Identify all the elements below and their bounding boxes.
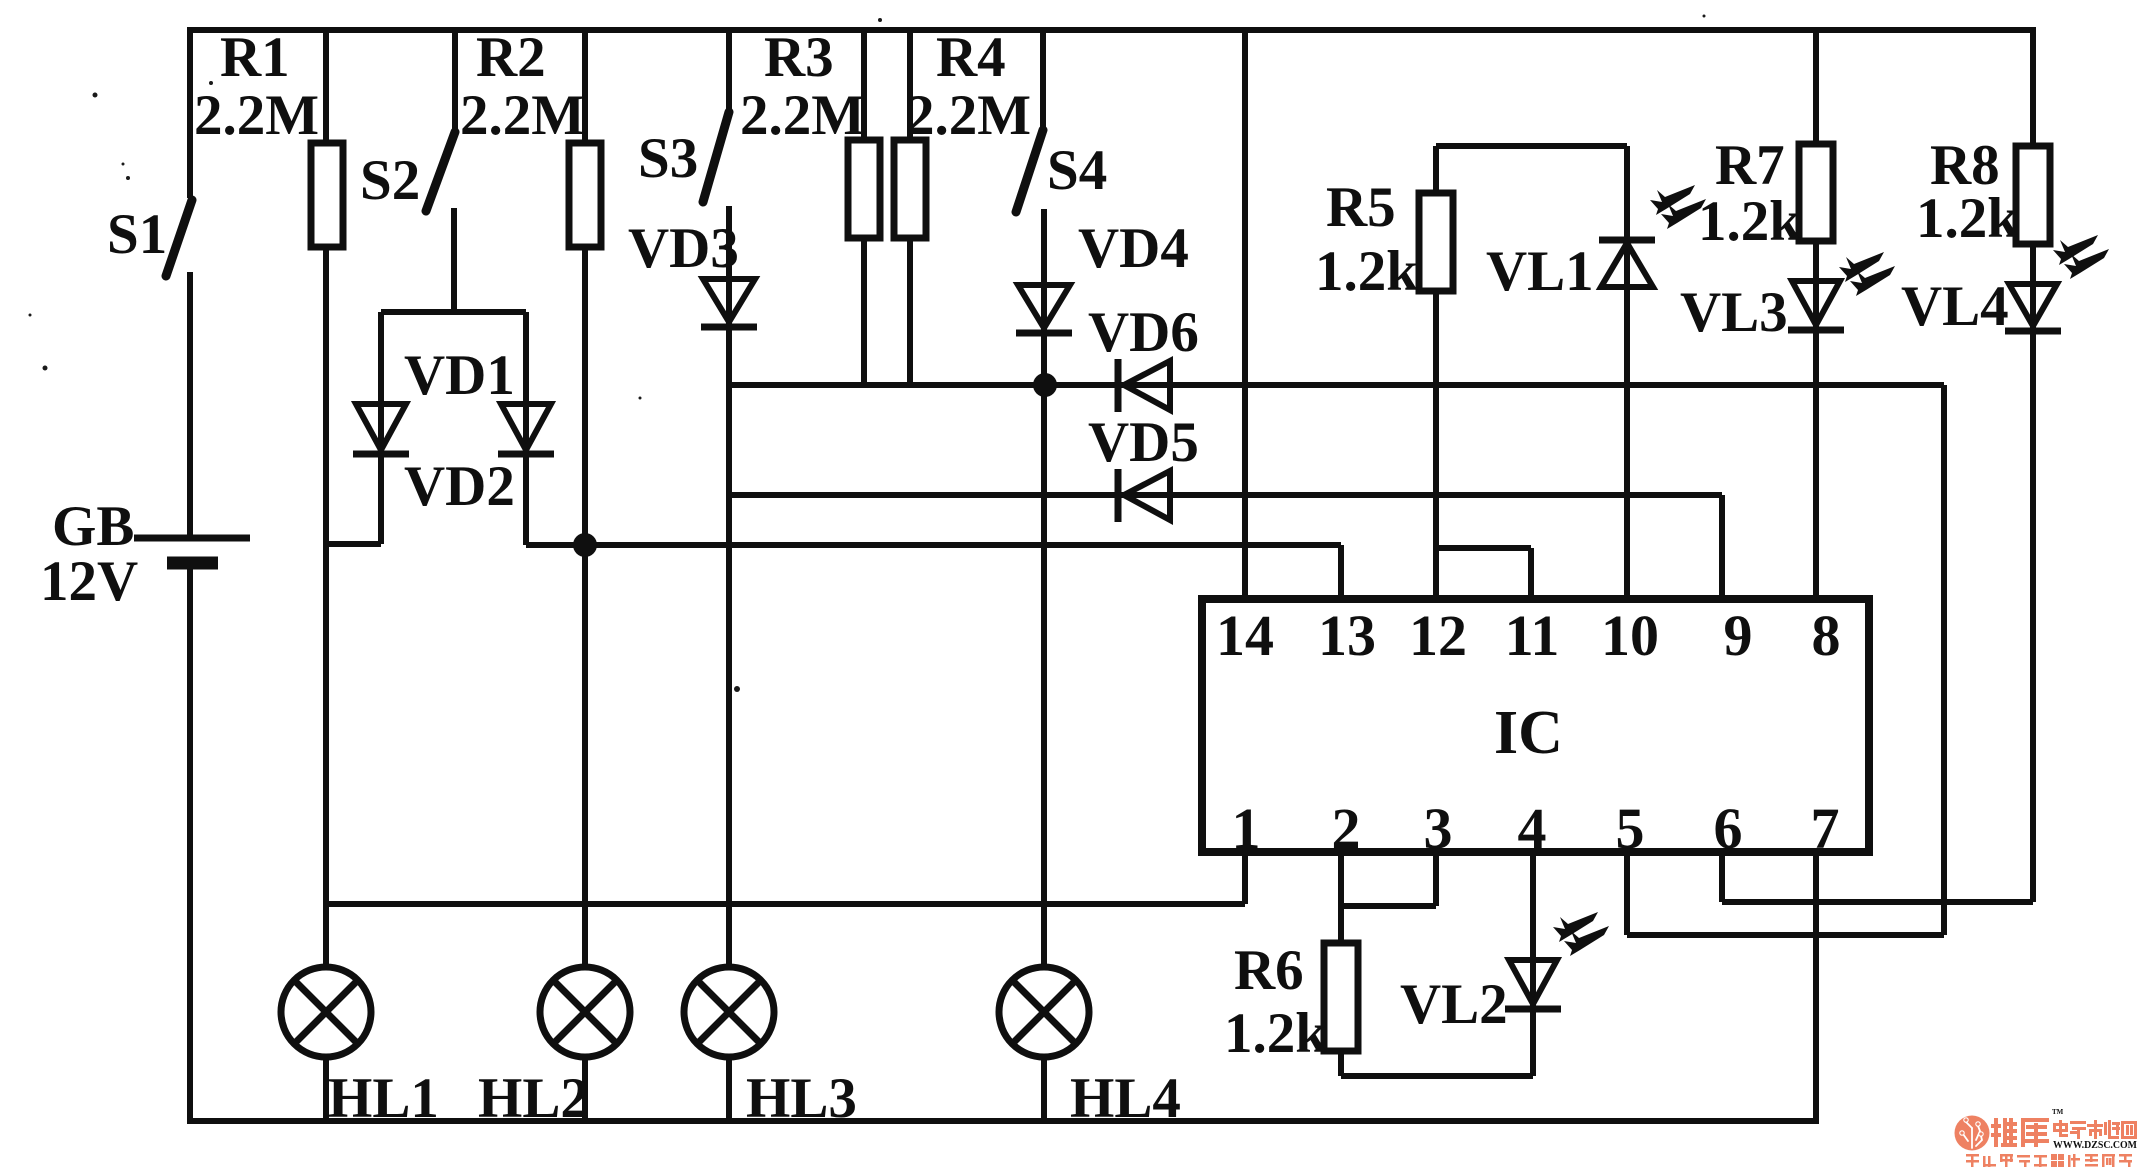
svg-text:12V: 12V <box>40 550 138 613</box>
svg-text:HL4: HL4 <box>1070 1067 1181 1130</box>
svg-text:HL2: HL2 <box>478 1067 589 1130</box>
svg-text:4: 4 <box>1518 796 1547 861</box>
svg-text:R1: R1 <box>220 26 290 89</box>
svg-text:1.2k: 1.2k <box>1916 187 2019 250</box>
svg-text:VD3: VD3 <box>628 217 739 280</box>
svg-text:14: 14 <box>1216 603 1274 668</box>
svg-text:2.2M: 2.2M <box>460 84 585 147</box>
svg-text:VL2: VL2 <box>1400 973 1508 1036</box>
svg-text:VD2: VD2 <box>404 455 515 518</box>
svg-text:S1: S1 <box>107 203 167 266</box>
svg-text:R4: R4 <box>936 26 1006 89</box>
svg-text:10: 10 <box>1601 603 1659 668</box>
svg-text:1.2k: 1.2k <box>1224 1002 1327 1065</box>
svg-text:R6: R6 <box>1234 939 1304 1002</box>
svg-text:2: 2 <box>1332 796 1361 861</box>
svg-text:VL3: VL3 <box>1680 281 1788 344</box>
svg-text:R3: R3 <box>764 26 834 89</box>
svg-text:VL1: VL1 <box>1486 240 1594 303</box>
svg-text:S4: S4 <box>1047 139 1107 202</box>
svg-text:VD5: VD5 <box>1088 411 1199 474</box>
svg-text:2.2M: 2.2M <box>740 84 865 147</box>
svg-text:VD6: VD6 <box>1088 301 1199 364</box>
svg-text:R7: R7 <box>1715 134 1785 197</box>
svg-text:11: 11 <box>1505 603 1560 668</box>
svg-text:2.2M: 2.2M <box>194 84 319 147</box>
svg-text:VD4: VD4 <box>1078 217 1189 280</box>
svg-text:TM: TM <box>2052 1108 2064 1116</box>
svg-text:WWW.DZSC.COM: WWW.DZSC.COM <box>2053 1140 2138 1151</box>
svg-text:1.2k: 1.2k <box>1315 240 1418 303</box>
svg-text:IC: IC <box>1494 699 1563 767</box>
svg-text:S2: S2 <box>360 149 420 212</box>
svg-text:R5: R5 <box>1326 176 1396 239</box>
svg-text:5: 5 <box>1616 796 1645 861</box>
svg-text:7: 7 <box>1811 796 1840 861</box>
svg-text:1: 1 <box>1232 796 1261 861</box>
svg-text:9: 9 <box>1724 603 1753 668</box>
svg-text:S3: S3 <box>638 127 698 190</box>
svg-text:VD1: VD1 <box>404 344 515 407</box>
svg-text:2.2M: 2.2M <box>906 84 1031 147</box>
svg-text:VL4: VL4 <box>1901 275 2009 338</box>
svg-text:8: 8 <box>1812 603 1841 668</box>
svg-text:HL1: HL1 <box>328 1067 439 1130</box>
svg-text:HL3: HL3 <box>746 1067 857 1130</box>
svg-text:1.2k: 1.2k <box>1698 190 1801 253</box>
svg-text:R2: R2 <box>476 26 546 89</box>
svg-text:12: 12 <box>1409 603 1467 668</box>
svg-text:13: 13 <box>1318 603 1376 668</box>
svg-text:3: 3 <box>1424 796 1453 861</box>
svg-text:6: 6 <box>1714 796 1743 861</box>
svg-text:GB: GB <box>52 495 134 558</box>
